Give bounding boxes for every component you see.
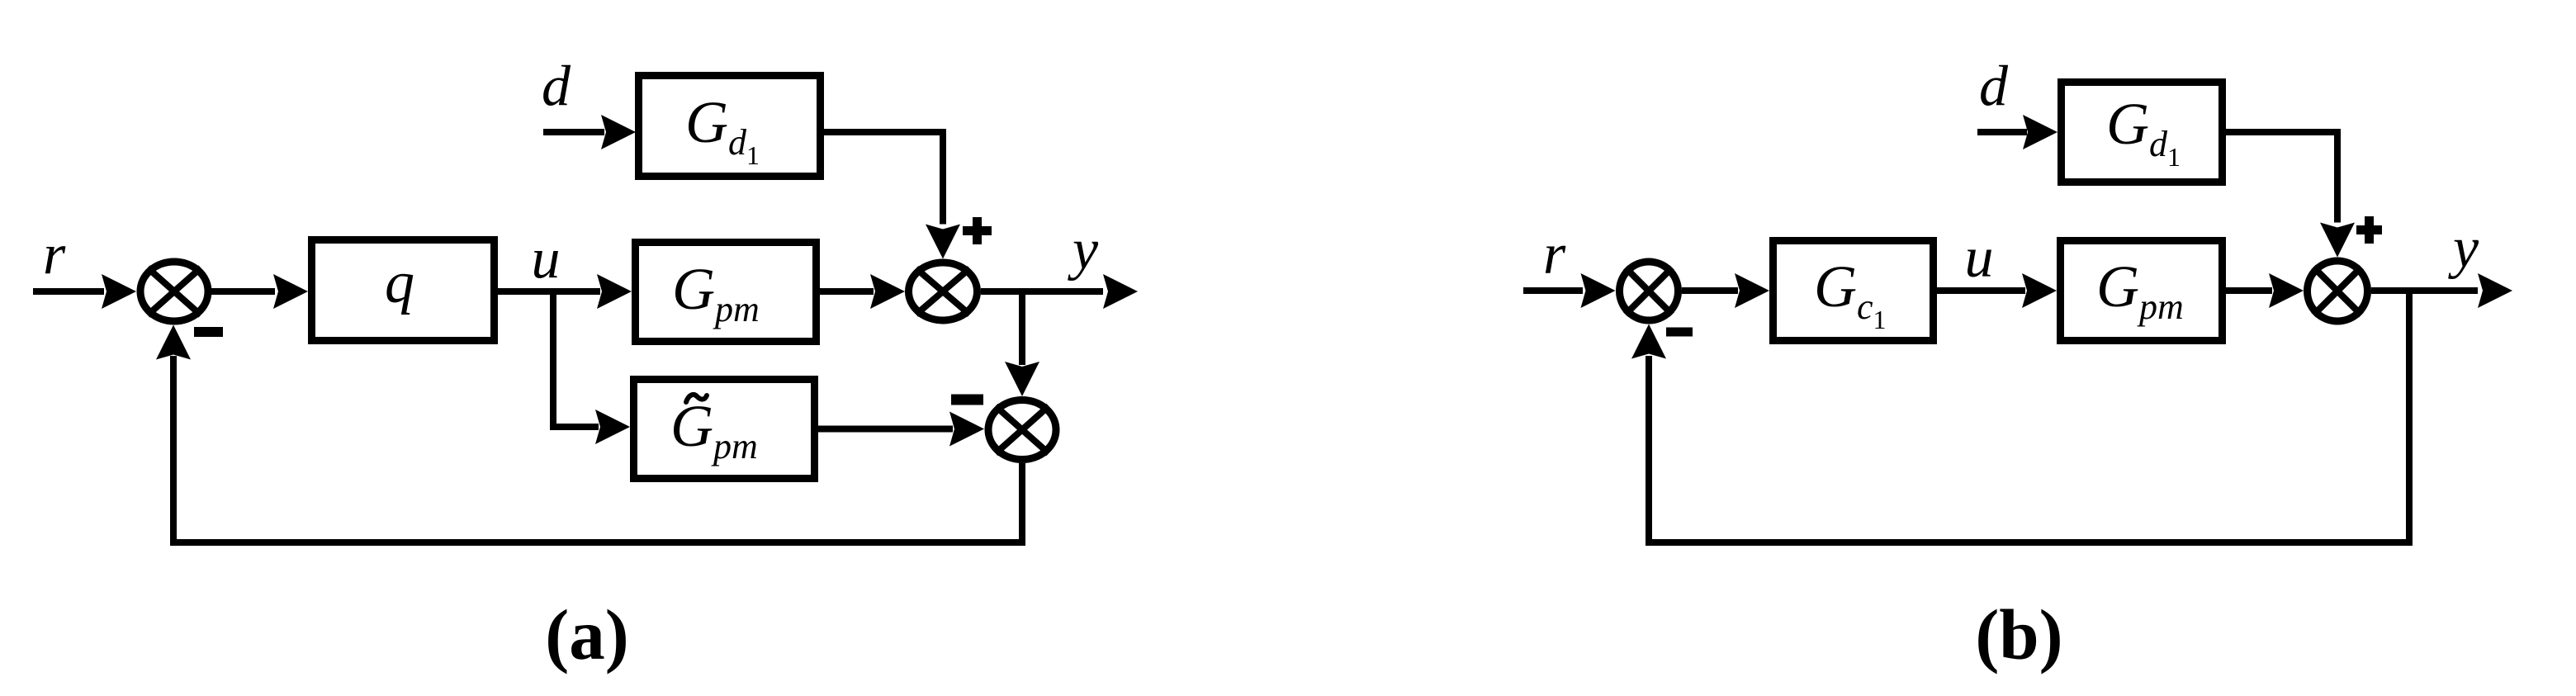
svg-text:(b): (b)	[1975, 594, 2062, 675]
wire Gc1 to Gpm (b)	[1937, 287, 2025, 294]
wire r input	[33, 288, 104, 295]
wire u branch down	[550, 291, 556, 427]
arrowhead into S2 top	[926, 225, 960, 259]
arrowhead into S3 left	[949, 412, 984, 447]
arrowhead r into summing junction S1	[102, 274, 136, 309]
block Gtilde_pm	[634, 380, 815, 479]
arrowhead into S2 left	[870, 274, 905, 309]
svg-text:y: y	[1068, 218, 1099, 282]
arrowhead into Gd1 (b)	[2023, 115, 2057, 149]
arrowhead into S4	[1581, 273, 1616, 308]
svg-text:d: d	[542, 55, 571, 119]
minus sign at S1	[194, 327, 223, 337]
wire Gpm to S5	[2226, 287, 2272, 294]
plus sign at S2	[963, 226, 992, 235]
block Gpm (b)	[2061, 241, 2223, 341]
wire d input (b)	[1977, 129, 2027, 135]
svg-text:u: u	[532, 227, 561, 291]
arrowhead into block q	[273, 274, 308, 309]
summing junction S3	[988, 400, 1056, 460]
svg-text:q: q	[385, 249, 414, 315]
wire Gd1 to S5	[2226, 132, 2337, 223]
svg-text:y: y	[2448, 216, 2479, 280]
wire S5 to y output	[2371, 287, 2478, 294]
arrowhead y output	[1103, 274, 1138, 309]
block Gpm	[636, 243, 817, 342]
summing junction S1	[140, 262, 208, 321]
summing junction S2	[909, 263, 978, 320]
summing junction S4	[1620, 262, 1679, 320]
arrowhead y output (b)	[2478, 273, 2512, 308]
arrowhead into S4 bottom	[1631, 324, 1666, 359]
feedback wire a	[173, 356, 1022, 542]
minus sign at S4	[1666, 328, 1693, 337]
block Gd1	[639, 76, 821, 177]
svg-text:r: r	[43, 223, 66, 286]
arrowhead into S3 top	[1005, 362, 1039, 396]
wire r input (b)	[1523, 287, 1583, 294]
svg-text:r: r	[1543, 223, 1566, 286]
block Gc1	[1773, 241, 1934, 341]
arrowhead into S1 bottom	[156, 325, 191, 360]
wire Gd1 to S2	[824, 132, 943, 225]
arrowhead into Gtilde_pm	[595, 410, 630, 444]
feedback wire b	[1649, 287, 2409, 542]
wire S1 to q	[208, 288, 275, 295]
block q	[312, 240, 495, 341]
minus sign at S3	[951, 395, 983, 405]
arrowhead into Gpm (b)	[2022, 273, 2057, 308]
plus sign at S5	[2356, 225, 2382, 234]
wire S4 to Gc1	[1682, 287, 1738, 294]
block Gd1 (b)	[2062, 83, 2223, 182]
wire branch down to S3	[1019, 291, 1025, 365]
wire branch to Gtilde	[550, 424, 599, 430]
arrowhead into Gpm	[597, 274, 632, 309]
wire d input	[543, 129, 604, 135]
svg-text:(a): (a)	[545, 594, 628, 675]
wire q to Gpm	[498, 288, 600, 295]
tilde over G	[686, 395, 707, 402]
arrowhead into S5	[2269, 273, 2304, 308]
arrowhead into Gc1	[1735, 273, 1769, 308]
arrowhead into S5 top	[2320, 223, 2355, 258]
summing junction S5	[2308, 261, 2368, 321]
wire Gpm to S2	[820, 288, 874, 295]
arrowhead into Gd1	[601, 115, 636, 149]
wire S2 to y output	[981, 288, 1103, 295]
wire Gtilde to S3	[818, 426, 953, 433]
svg-text:u: u	[1965, 226, 1994, 290]
svg-text:d: d	[1979, 55, 2009, 119]
